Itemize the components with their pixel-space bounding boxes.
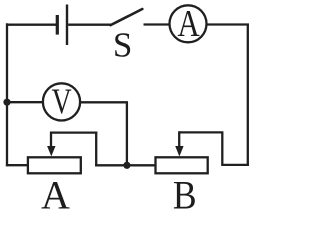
wire rheostat A slider horizontal bbox=[51, 131, 97, 133]
ammeter U1 circle bbox=[170, 5, 207, 42]
svg-text:A: A bbox=[41, 173, 70, 209]
wire switch contact to ammeter bbox=[144, 23, 171, 25]
switch S blade (open) bbox=[111, 9, 143, 25]
wire bottom-right segment bbox=[222, 164, 249, 166]
battery BT1 negative plate (short) bbox=[56, 15, 59, 35]
voltmeter U2 circle bbox=[43, 83, 80, 120]
svg-text:A: A bbox=[178, 3, 201, 45]
rheostat A box bbox=[28, 157, 81, 173]
wire top-left segment bbox=[7, 24, 56, 26]
svg-text:B: B bbox=[173, 172, 197, 209]
rheostat B slider arrow shaft bbox=[178, 131, 180, 147]
junction node center (slider A / voltmeter / rheostat B) bbox=[123, 162, 130, 169]
wire right rail bbox=[247, 25, 249, 167]
rheostat B slider arrowhead bbox=[175, 146, 183, 157]
junction node left (voltmeter tap) bbox=[3, 99, 10, 106]
wire battery to switch bbox=[68, 24, 111, 26]
wire ammeter to right rail bbox=[207, 23, 250, 25]
rheostat A slider arrow shaft bbox=[50, 132, 52, 148]
wire rheostat B slider horizontal bbox=[179, 131, 223, 133]
rheostat A slider arrowhead bbox=[47, 146, 55, 156]
svg-text:V: V bbox=[52, 81, 72, 121]
battery BT1 positive plate (long) bbox=[66, 5, 68, 46]
wire left rail to voltmeter bbox=[6, 101, 43, 103]
wire junction to rheostat B bbox=[127, 164, 156, 166]
wire voltmeter to drop corner bbox=[81, 101, 129, 103]
rheostat B box bbox=[156, 157, 208, 173]
wire rheostat A slider riser bbox=[95, 132, 97, 167]
wire voltmeter drop bbox=[126, 102, 128, 165]
wire rheostat B slider riser bbox=[221, 132, 223, 166]
wire bottom-left to rheostat A bbox=[6, 164, 29, 166]
wire rheostat A slider to junction bbox=[95, 164, 127, 166]
svg-text:S: S bbox=[113, 26, 132, 65]
wire left rail bbox=[6, 23, 8, 166]
